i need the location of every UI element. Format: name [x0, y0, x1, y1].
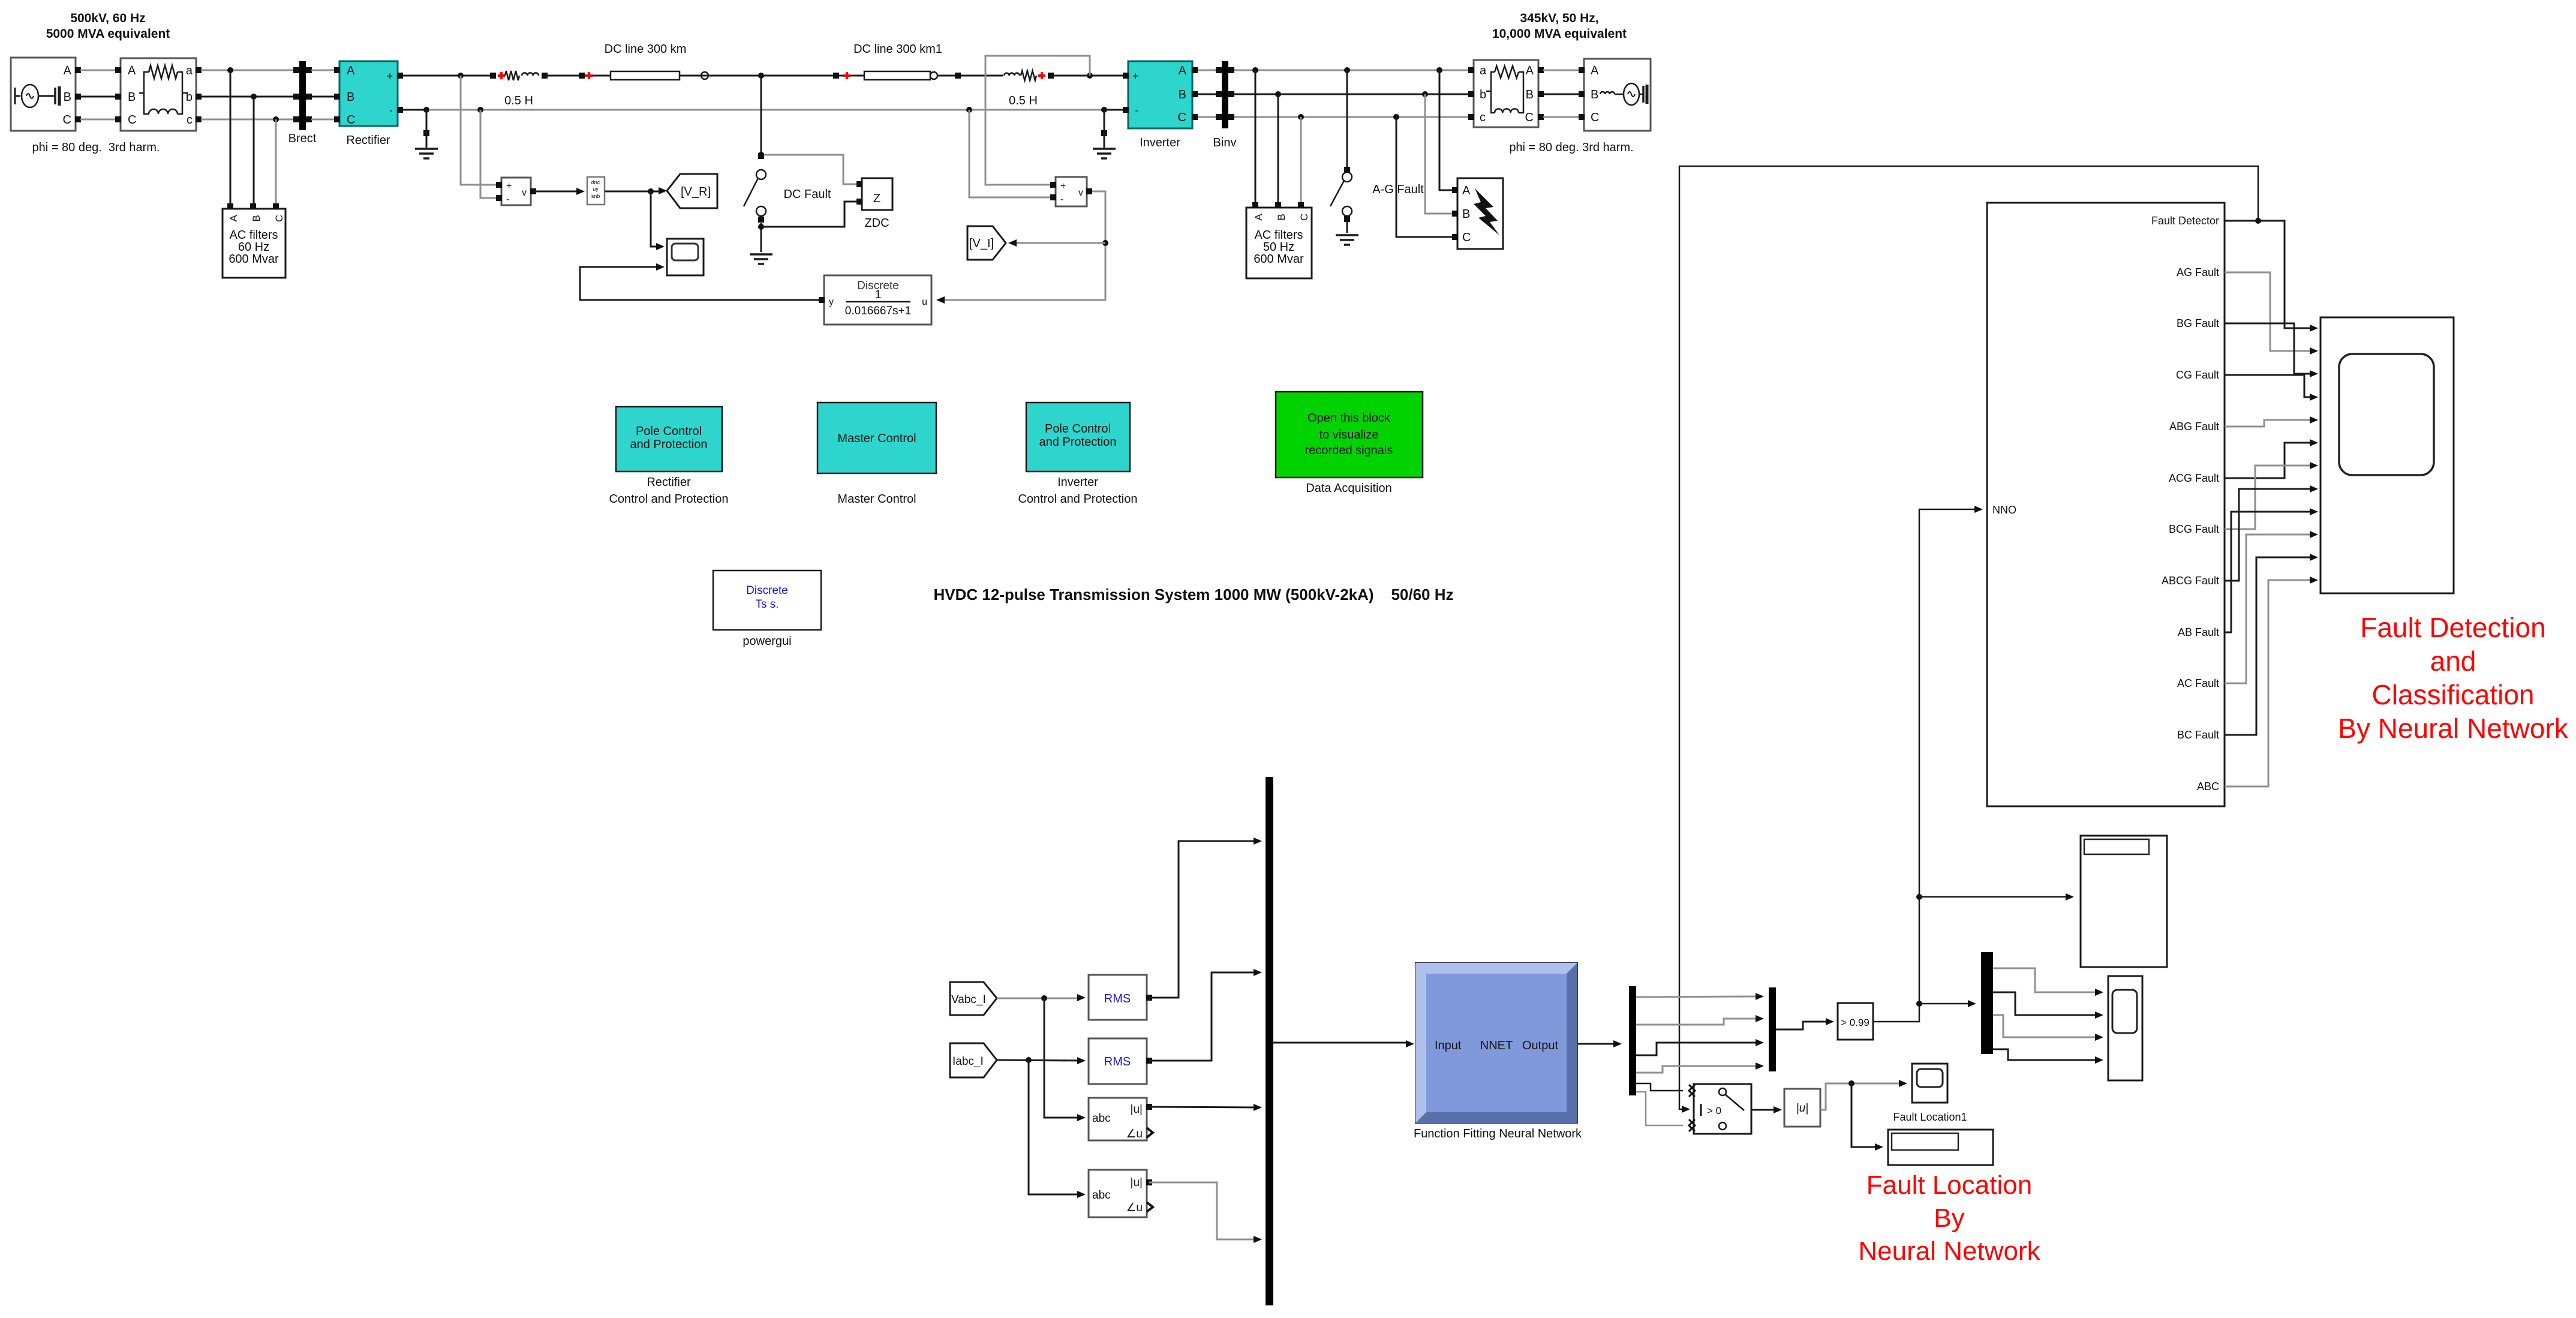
subsystem Pole Control inverter	[1026, 403, 1130, 472]
svg-text:A: A	[1591, 64, 1599, 77]
svg-text:CG Fault: CG Fault	[2176, 369, 2219, 381]
svg-text:A: A	[64, 64, 72, 77]
subsystem Master Control	[817, 403, 936, 473]
wire ACF2 drop B	[1278, 94, 1279, 204]
svg-text:A: A	[1253, 214, 1264, 221]
wire mux4 o4	[1993, 1049, 2103, 1064]
wire abc2 to mux	[1149, 1182, 1262, 1243]
svg-text:B: B	[64, 91, 71, 104]
svg-text:50 Hz: 50 Hz	[1263, 241, 1294, 254]
svg-text:phi = 80 deg. 3rd harm.: phi = 80 deg. 3rd harm.	[32, 141, 160, 154]
ground DC fault	[750, 254, 773, 264]
wire conv to VR tag	[605, 187, 667, 194]
wire phase A right	[1234, 70, 1471, 71]
bus bar Brect	[293, 61, 312, 130]
svg-text:+: +	[1060, 181, 1066, 191]
wire DC pos seg4	[937, 75, 1003, 77]
wire TF feedback to scope	[580, 263, 822, 300]
annotation 500kV 60Hz label	[46, 11, 170, 41]
ground rectifier	[415, 110, 438, 158]
svg-text:u: u	[922, 297, 927, 307]
svg-text:C: C	[63, 113, 71, 127]
from tag V_I	[967, 226, 1006, 260]
ground inverter	[1093, 110, 1116, 158]
svg-text:Brect: Brect	[288, 132, 317, 145]
svg-text:BC Fault: BC Fault	[2177, 729, 2219, 741]
signal conversion block	[587, 177, 605, 205]
wire Vabc to RMS1	[997, 994, 1086, 1001]
AC source block 345kV	[1579, 59, 1651, 131]
svg-text:|u|: |u|	[1131, 1176, 1143, 1189]
wire Iabc to RMS2	[997, 1057, 1086, 1064]
svg-text:B: B	[1526, 88, 1534, 101]
svg-text:AB Fault: AB Fault	[2178, 626, 2219, 638]
wire BCG Fault to scope	[2225, 462, 2318, 529]
svg-text:Vabc_I: Vabc_I	[951, 993, 986, 1006]
powergui block	[713, 571, 821, 630]
svg-text:Input: Input	[1435, 1039, 1462, 1052]
wire V1 minus sense	[480, 110, 499, 198]
voltage measurement V2	[1050, 177, 1092, 206]
label powergui	[743, 635, 791, 648]
abs block	[1784, 1089, 1820, 1127]
label DC line 300 km1	[853, 43, 942, 56]
wire phase C seg2	[201, 119, 296, 121]
wire inv A	[1198, 70, 1219, 71]
svg-text:C: C	[1178, 111, 1186, 124]
svg-text:Pole Control: Pole Control	[636, 425, 702, 438]
svg-text:and Protection: and Protection	[630, 438, 708, 451]
node fault tap A	[1436, 67, 1442, 73]
wire ABC to scope	[2225, 577, 2318, 786]
label DC Fault	[784, 188, 831, 201]
svg-text:DC Fault: DC Fault	[784, 188, 831, 201]
wire Fault Detector to scope	[2225, 221, 2318, 332]
svg-text:ACG Fault: ACG Fault	[2169, 472, 2219, 484]
svg-text:B: B	[1276, 214, 1287, 220]
wire DCfault upper to ZDC	[761, 155, 859, 184]
node riser display	[1916, 894, 1922, 900]
wire inv C	[1198, 116, 1219, 118]
connector DC line2 right	[930, 72, 937, 79]
wire V1 to conversion	[533, 188, 585, 195]
annotation fault location red	[1858, 1170, 2040, 1266]
svg-text:BCG Fault: BCG Fault	[2169, 523, 2219, 535]
node ACF2 tap A	[1252, 67, 1258, 73]
node AG switch tap	[1344, 67, 1350, 73]
wire DC pos seg5	[1051, 75, 1123, 77]
wire BC Fault to scope	[2225, 554, 2318, 735]
port DC line2 left	[833, 72, 850, 79]
DC line 300km1 block	[864, 71, 930, 80]
transformer/equivalent impedance block left	[115, 58, 202, 131]
node abs branch	[1848, 1080, 1854, 1086]
svg-text:RMS: RMS	[1104, 1055, 1131, 1068]
label master control	[837, 493, 916, 506]
svg-text:By: By	[1934, 1203, 1964, 1233]
svg-text:Iabc_I: Iabc_I	[952, 1055, 984, 1068]
demux fault flags	[1981, 952, 1993, 1054]
wire return stub inverter	[1104, 109, 1123, 111]
svg-text:and: and	[2430, 646, 2476, 677]
label Inverter	[1140, 136, 1180, 149]
wire fault A	[1439, 70, 1453, 190]
DC line 300km block	[611, 71, 680, 80]
mux classification	[1769, 987, 1776, 1071]
svg-text:AC filters: AC filters	[1254, 229, 1303, 242]
wire V2 plus sense	[985, 56, 1090, 185]
from tag Iabc_I	[950, 1043, 997, 1077]
svg-text:BG Fault: BG Fault	[2177, 317, 2219, 329]
wire RMS1 to mux	[1149, 837, 1262, 998]
svg-text:Discrete: Discrete	[746, 584, 788, 597]
display fault location	[1888, 1130, 1993, 1165]
svg-text:A-G Fault: A-G Fault	[1372, 183, 1424, 196]
wire Iabc to abc2	[1029, 1060, 1086, 1198]
node C tap1	[273, 116, 279, 122]
wire to VI tag	[1008, 239, 1105, 247]
svg-text:+: +	[387, 70, 393, 82]
wire t2-src A	[1543, 70, 1579, 71]
wire abc1 to mux	[1149, 1104, 1262, 1111]
wire threshold out riser	[1873, 506, 1983, 1022]
svg-text:Function Fitting Neural Networ: Function Fitting Neural Network	[1414, 1127, 1582, 1140]
svg-text:Master Control: Master Control	[837, 432, 916, 445]
title annotation	[933, 586, 1453, 604]
wire demux o2	[1636, 1015, 1764, 1025]
wire AC filter drop C	[275, 119, 277, 205]
svg-text:AC filters: AC filters	[229, 229, 278, 242]
svg-text:AG Fault: AG Fault	[2177, 266, 2219, 278]
svg-text:NNO: NNO	[1992, 504, 2016, 516]
svg-text:-: -	[506, 194, 509, 205]
svg-text:c: c	[187, 113, 193, 127]
three-phase fault block	[1452, 178, 1503, 249]
node ACF2 tap C	[1298, 114, 1304, 120]
wire riser to display	[1919, 893, 2074, 900]
wire fault detector loop	[1679, 166, 2258, 1113]
wire AC filter drop A	[230, 70, 232, 205]
AC filters 60Hz block	[223, 203, 285, 278]
svg-text:By Neural Network: By Neural Network	[2338, 713, 2568, 744]
svg-text:B: B	[1179, 88, 1186, 101]
wire inv B	[1198, 94, 1219, 95]
scope Fault Location1	[1912, 1064, 1947, 1103]
wire Brect-rectifier C	[311, 119, 337, 121]
svg-text:uy: uy	[593, 186, 599, 192]
svg-text:abc: abc	[1092, 1189, 1111, 1202]
function fitting neural network block	[1415, 963, 1577, 1123]
inductor 0.5H inverter side	[1004, 71, 1054, 80]
wire CG Fault to scope	[2225, 375, 2318, 401]
svg-text:+: +	[1132, 70, 1139, 82]
svg-text:C: C	[128, 113, 136, 127]
svg-text:ABCG Fault: ABCG Fault	[2162, 575, 2219, 587]
wire demux o4	[1636, 1062, 1764, 1073]
wire riser to mux4	[1919, 1000, 1976, 1007]
wire mux4 o3	[1993, 1015, 2103, 1041]
wire DCfault lower to ZDC	[761, 202, 859, 227]
display fault detector	[2081, 836, 2167, 967]
wire switch to abs	[1751, 1106, 1782, 1113]
scope fault classification	[2320, 317, 2454, 593]
node riser mux4	[1916, 1001, 1922, 1007]
label 0.5H left	[504, 94, 533, 107]
svg-text:ABG Fault: ABG Fault	[2169, 421, 2219, 433]
wire DC return seg1	[403, 109, 429, 111]
subsystem Pole Control rectifier	[616, 407, 722, 472]
switch AG fault	[1330, 70, 1352, 233]
wire BG Fault to scope	[2225, 323, 2318, 377]
wire V2 out to TF u	[936, 191, 1105, 304]
node DC pos tap V1	[458, 73, 464, 79]
svg-text:500kV, 60 Hz: 500kV, 60 Hz	[70, 11, 145, 25]
node return Vsense1	[477, 107, 483, 113]
svg-text:|u|: |u|	[1131, 1103, 1143, 1116]
node DCfault upper	[758, 152, 764, 158]
svg-text:C: C	[1591, 111, 1599, 124]
svg-text:Pole Control: Pole Control	[1045, 422, 1111, 436]
svg-text:∠u: ∠u	[1126, 1128, 1143, 1140]
label Rectifier	[346, 134, 390, 147]
svg-text:to visualize: to visualize	[1319, 428, 1379, 442]
RMS block current	[1089, 1038, 1152, 1084]
wire ABG Fault to scope	[2225, 416, 2318, 427]
wire V1 plus sense	[461, 76, 499, 185]
wire ACG Fault to scope	[2225, 439, 2318, 478]
sequence analyzer abc voltage	[1089, 1098, 1153, 1140]
svg-text:A: A	[228, 215, 239, 222]
wire mux4 o2	[1993, 992, 2103, 1019]
svg-text:B: B	[1591, 88, 1598, 101]
port DC line1 left	[579, 72, 593, 79]
node V2 out branch	[1102, 240, 1108, 246]
wire Brect-rectifier B	[311, 96, 337, 98]
label inverter control	[1018, 476, 1137, 506]
annotation fault detection red	[2338, 612, 2568, 744]
AC source block 500kV	[11, 58, 81, 131]
scope flags	[2108, 976, 2142, 1080]
switch DC Fault	[744, 76, 766, 252]
svg-text:Fault Detector: Fault Detector	[2151, 215, 2219, 227]
mux input features	[1266, 777, 1273, 1305]
wire demux o3	[1636, 1039, 1764, 1055]
wire mux4 o1	[1993, 968, 2103, 996]
svg-text:Fault Location: Fault Location	[1866, 1170, 2032, 1200]
wire mux to threshold	[1776, 1018, 1834, 1029]
wire V2 minus sense	[969, 110, 1053, 197]
label rectifier control	[609, 476, 728, 506]
wire DC pos seg2	[545, 75, 611, 77]
label FFNN	[1414, 1127, 1582, 1140]
voltage measurement V1	[496, 178, 536, 205]
wire AC filter drop B	[253, 97, 255, 205]
node VR branch	[648, 188, 654, 194]
node return gnd1	[423, 107, 429, 113]
wire demux o1	[1636, 993, 1764, 1000]
transformer/equivalent impedance block right	[1468, 60, 1544, 127]
svg-text:345kV, 50 Hz,: 345kV, 50 Hz,	[1520, 11, 1598, 25]
wire phase A seg1	[80, 70, 118, 71]
svg-text:Fault Location1: Fault Location1	[1893, 1111, 1967, 1123]
svg-text:C: C	[347, 113, 355, 127]
wire ACF2 drop C	[1300, 117, 1302, 204]
svg-text:v: v	[522, 188, 527, 198]
svg-text:a: a	[1480, 64, 1487, 77]
wire DC return long	[429, 109, 1104, 111]
svg-text:A: A	[347, 64, 355, 77]
svg-text:Control and Protection: Control and Protection	[1018, 493, 1137, 506]
svg-text:DC line 300 km1: DC line 300 km1	[853, 43, 942, 56]
svg-text:Open this block: Open this block	[1307, 412, 1391, 425]
wire Brect-rectifier A	[311, 70, 337, 71]
wire demux o6 to switch in3	[1636, 1092, 1683, 1125]
wire NNET to demux	[1577, 1040, 1622, 1047]
svg-text:Neural Network: Neural Network	[1858, 1236, 2040, 1266]
svg-text:|u|: |u|	[1796, 1102, 1808, 1115]
wire fault B	[1425, 94, 1453, 214]
svg-text:0.016667s+1: 0.016667s+1	[845, 305, 911, 317]
svg-text:DC line 300 km: DC line 300 km	[605, 43, 687, 56]
svg-text:A: A	[1526, 64, 1534, 77]
wire abs out	[1820, 1080, 1907, 1110]
svg-text:A: A	[1179, 64, 1187, 77]
wire mux to NNET	[1273, 1040, 1414, 1047]
svg-text:0.5 H: 0.5 H	[504, 94, 533, 107]
AC filters 50Hz block	[1246, 202, 1312, 278]
svg-text:b: b	[1480, 88, 1486, 101]
svg-text:Fault Detection: Fault Detection	[2360, 612, 2545, 643]
label phi 3rd harm left	[32, 141, 160, 154]
svg-text:Inverter: Inverter	[1057, 476, 1098, 489]
svg-text:Rectifier: Rectifier	[346, 134, 390, 147]
svg-text:abc: abc	[1092, 1112, 1111, 1125]
svg-text:Output: Output	[1522, 1039, 1558, 1052]
label phi 3rd harm right	[1509, 141, 1633, 154]
impedance block ZDC	[856, 178, 892, 210]
svg-text:dnc: dnc	[591, 179, 600, 185]
svg-text:Master Control: Master Control	[837, 493, 916, 506]
svg-text:10,000 MVA equivalent: 10,000 MVA equivalent	[1492, 27, 1627, 41]
svg-text:600 Mvar: 600 Mvar	[229, 253, 279, 266]
label ZDC	[864, 217, 889, 230]
svg-text:Rectifier: Rectifier	[647, 476, 691, 489]
svg-text:C: C	[1462, 231, 1471, 244]
svg-text:A: A	[1462, 184, 1471, 197]
node Iabc tap	[1026, 1057, 1032, 1063]
node fault detector junction	[2255, 218, 2261, 224]
wire demux o5 to switch in1	[1636, 1083, 1683, 1091]
svg-text:c: c	[1480, 111, 1486, 124]
wire DC pos seg3	[680, 75, 864, 77]
svg-text:B: B	[128, 91, 136, 104]
converter block Rectifier	[334, 61, 403, 127]
sequence analyzer abc current	[1089, 1170, 1153, 1217]
svg-text:C: C	[273, 215, 285, 222]
wire phase B seg1	[80, 96, 118, 98]
wire AC Fault to scope	[2225, 531, 2318, 683]
wire DC positive seg1	[403, 75, 492, 77]
subsystem fault classification neural network	[1987, 203, 2225, 806]
svg-text:1: 1	[875, 289, 882, 301]
label Binv	[1213, 136, 1237, 149]
wire t2-src C	[1543, 116, 1579, 118]
ground AG switch	[1336, 235, 1358, 245]
svg-text:ABC: ABC	[2197, 780, 2219, 792]
svg-text:Classification: Classification	[2372, 679, 2535, 710]
node return gnd2	[1101, 107, 1107, 113]
node A tap1	[227, 67, 233, 73]
svg-text:5000 MVA equivalent: 5000 MVA equivalent	[46, 27, 170, 41]
label A-G Fault	[1372, 183, 1424, 196]
svg-text:B: B	[347, 91, 354, 104]
label data acquisition	[1306, 482, 1391, 495]
svg-text:powergui: powergui	[743, 635, 791, 648]
label DC line 300 km	[605, 43, 687, 56]
wire to display5	[1851, 1083, 1883, 1151]
discrete transfer function block	[819, 275, 931, 325]
svg-text:recorded signals: recorded signals	[1305, 444, 1393, 457]
svg-text:+: +	[506, 181, 512, 191]
svg-text:ZDC: ZDC	[864, 217, 889, 230]
wire Vabc to abc1	[1044, 998, 1086, 1121]
svg-text:C: C	[1525, 111, 1534, 124]
wire phase A seg2	[201, 70, 296, 71]
node fault tap C	[1393, 114, 1399, 120]
svg-text:C: C	[1298, 214, 1310, 221]
svg-text:and Protection: and Protection	[1039, 436, 1117, 449]
goto tag V_R	[667, 174, 717, 208]
svg-text:Control and Protection: Control and Protection	[609, 493, 728, 506]
svg-text:[V_I]: [V_I]	[969, 237, 994, 250]
node DC pos tap V2	[1087, 73, 1093, 79]
wire VR branch to scope	[651, 191, 665, 250]
label 0.5H right	[1009, 94, 1038, 107]
svg-text:AC Fault: AC Fault	[2177, 677, 2219, 689]
svg-text:y: y	[829, 297, 834, 307]
label Brect	[288, 132, 317, 145]
svg-text:60 Hz: 60 Hz	[238, 241, 269, 254]
subsystem Data Acquisition	[1276, 392, 1423, 478]
wire t2-src B	[1543, 94, 1579, 95]
svg-text:Binv: Binv	[1213, 136, 1237, 149]
svg-text:600 Mvar: 600 Mvar	[1254, 253, 1304, 266]
svg-text:A: A	[128, 64, 136, 77]
node DC fault lower	[758, 224, 764, 230]
svg-text:0.5 H: 0.5 H	[1009, 94, 1038, 107]
svg-text:Data Acquisition: Data Acquisition	[1306, 482, 1391, 495]
from tag Vabc_I	[950, 982, 997, 1015]
scope Scope1	[667, 239, 704, 275]
demux NNET outputs	[1629, 986, 1636, 1095]
svg-text:> 0.99: > 0.99	[1841, 1017, 1869, 1028]
wire RMS2 to mux	[1149, 969, 1262, 1061]
svg-text:v: v	[1078, 188, 1083, 198]
svg-text:B: B	[1462, 208, 1470, 221]
node ACF2 tap B	[1275, 91, 1281, 97]
node fault tap B	[1422, 91, 1428, 97]
node return Vsense2	[966, 107, 972, 113]
RMS block voltage	[1089, 975, 1152, 1020]
compare to constant block	[1838, 1003, 1873, 1040]
svg-text:> 0: > 0	[1707, 1105, 1721, 1116]
annotation 345kV label	[1492, 11, 1627, 41]
svg-text:HVDC 12-pulse Transmission Sys: HVDC 12-pulse Transmission System 1000 M…	[933, 586, 1453, 604]
svg-text:NNET: NNET	[1480, 1039, 1513, 1052]
converter block Inverter	[1123, 61, 1198, 128]
svg-text:[V_R]: [V_R]	[681, 185, 711, 199]
svg-text:snb: snb	[591, 193, 600, 199]
